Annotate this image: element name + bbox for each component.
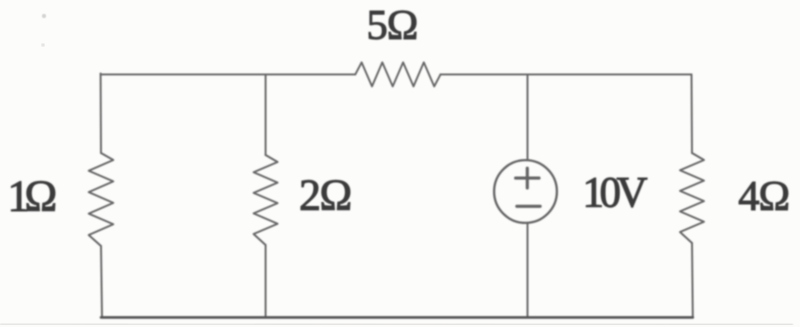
resistor R5 5ohm zigzag (355, 62, 440, 86)
svg-text:2Ω: 2Ω (299, 171, 351, 220)
wire right branch lower (691, 243, 694, 317)
wire top rail right segment (441, 73, 692, 75)
svg-text:5Ω: 5Ω (367, 2, 418, 49)
wire top rail left segment (101, 73, 356, 75)
wire right branch upper (691, 74, 694, 153)
voltage source V1 circle (494, 160, 557, 223)
resistor R2 2ohm zigzag (254, 155, 278, 245)
wire source branch upper (527, 74, 529, 160)
svg-text:10V: 10V (583, 169, 648, 216)
voltage source plus sign (516, 168, 539, 188)
scan artifact bottom shadow line (0, 323, 793, 326)
svg-text:1Ω: 1Ω (8, 172, 56, 221)
wire bottom rail (101, 316, 693, 319)
resistor R4 4ohm zigzag (680, 153, 704, 243)
wire left branch upper (100, 74, 102, 154)
wire middle branch upper (265, 74, 267, 155)
voltage source minus sign (517, 205, 540, 208)
scan artifact top-left smudges (42, 14, 46, 18)
wire left branch lower (101, 246, 102, 317)
resistor R1 1ohm zigzag (89, 153, 114, 246)
wire middle branch lower (265, 245, 267, 317)
svg-text:4Ω: 4Ω (738, 173, 789, 220)
wire source branch lower (527, 223, 529, 317)
